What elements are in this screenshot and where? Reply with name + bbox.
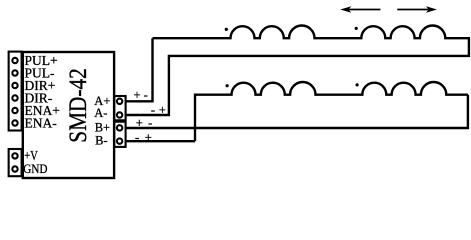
svg-text:GND: GND — [23, 162, 47, 176]
phase dot coil A1 — [225, 28, 228, 31]
terminal GND — [12, 166, 17, 171]
direction arrow left — [340, 6, 380, 12]
wire B+ line to far right riser — [126, 95, 468, 128]
wire phase A loop with coils L1 L2 — [126, 26, 469, 116]
terminal DIR+ — [12, 83, 17, 88]
terminal B- — [117, 138, 122, 143]
terminal A- — [117, 112, 122, 117]
terminal PUL+ — [12, 58, 17, 63]
motor terminal block B — [114, 122, 125, 147]
wire B- stub — [126, 140, 195, 142]
svg-text:ENA-: ENA- — [25, 116, 58, 131]
motor terminal block A — [114, 96, 125, 120]
wire phase B line with coils L3 L4 — [195, 82, 468, 141]
terminal DIR- — [12, 95, 17, 100]
svg-text:B-: B- — [95, 134, 108, 148]
svg-text:B+: B+ — [95, 121, 110, 135]
terminal ENA- — [12, 120, 17, 125]
phase dot coil B1 — [226, 84, 229, 87]
terminal A+ — [117, 99, 122, 104]
terminal PUL- — [12, 70, 17, 75]
terminal B+ — [117, 125, 122, 130]
svg-text:SMD-42: SMD-42 — [64, 68, 92, 143]
terminal +V — [12, 153, 17, 158]
phase dot coil A2 — [355, 27, 358, 30]
terminal ENA+ — [12, 108, 17, 113]
left control terminal strip — [9, 52, 22, 131]
svg-text:+V: +V — [24, 148, 38, 163]
svg-text:+ -: + - — [134, 88, 148, 102]
phase dot coil B2 — [356, 83, 359, 86]
wire A+ stub and riser — [126, 38, 153, 101]
power terminal strip — [9, 149, 22, 176]
driver box U1 SMD-42 — [23, 52, 114, 178]
svg-text:A-: A- — [94, 106, 107, 120]
direction arrow right — [397, 6, 437, 12]
